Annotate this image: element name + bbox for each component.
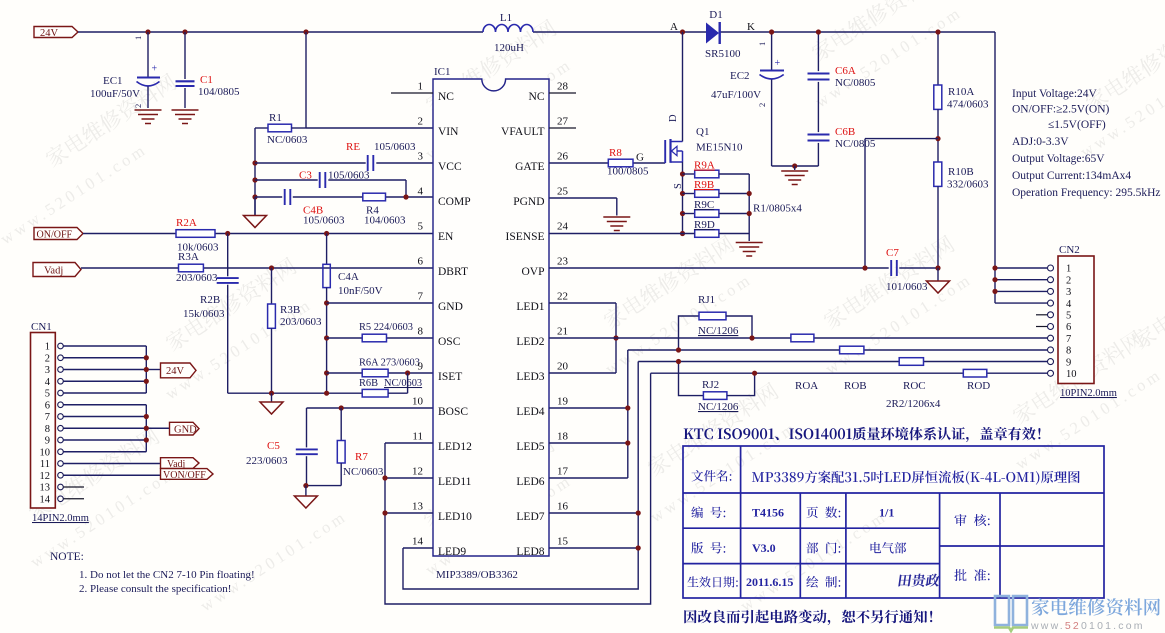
- svg-text:+: +: [152, 64, 158, 75]
- wire BOSC line: [307, 407, 434, 409]
- svg-text:332/0603: 332/0603: [947, 179, 989, 191]
- svg-text:11: 11: [40, 459, 50, 470]
- node junction EN R2B: [225, 231, 230, 236]
- svg-text:10nF/50V: 10nF/50V: [338, 285, 383, 297]
- svg-text:V3.0: V3.0: [752, 541, 776, 555]
- svg-text:5: 5: [45, 389, 50, 400]
- svg-text:16: 16: [557, 501, 569, 513]
- VON/OFF output tag: [161, 469, 214, 480]
- resistor R4: [363, 193, 386, 201]
- wire R9 right vertical: [748, 174, 750, 241]
- svg-text:LED5: LED5: [516, 441, 544, 453]
- node junction source R9C: [680, 211, 685, 216]
- svg-text:RE: RE: [346, 141, 360, 153]
- svg-text:ROA: ROA: [795, 380, 818, 392]
- svg-text:23: 23: [557, 256, 569, 268]
- resistor R8: [608, 159, 633, 167]
- cell label number: [691, 506, 703, 518]
- wire GND line: [327, 302, 433, 304]
- node junction EC2 ground: [792, 163, 797, 168]
- svg-text:24V: 24V: [40, 28, 59, 39]
- node junction rail R3B: [269, 391, 274, 396]
- svg-text:NC/1206: NC/1206: [698, 325, 739, 337]
- svg-text:21: 21: [557, 326, 568, 338]
- svg-text:20: 20: [557, 361, 569, 373]
- ground triangle C5: [305, 486, 307, 496]
- svg-text:14: 14: [412, 536, 424, 548]
- capacitor C5: [306, 408, 308, 447]
- inductor L1: [483, 25, 533, 32]
- node junction OVP link: [862, 265, 867, 270]
- svg-text:SR5100: SR5100: [705, 48, 741, 60]
- svg-text:203/0603: 203/0603: [176, 272, 218, 284]
- wire LED6 line: [549, 477, 628, 479]
- pin 28 stub: [549, 92, 576, 94]
- svg-text:4: 4: [45, 377, 51, 388]
- wire CN1 pin13 stub: [63, 486, 84, 488]
- cell label file name: [692, 470, 704, 482]
- svg-text:R6B: R6B: [359, 378, 378, 389]
- svg-text:4: 4: [1066, 299, 1072, 310]
- node junction C1 on 24V rail: [182, 29, 187, 34]
- svg-text:120uH: 120uH: [494, 42, 524, 54]
- svg-text:105/0603: 105/0603: [374, 141, 416, 153]
- svg-text:ON/OFF: ON/OFF: [37, 229, 73, 240]
- diode D1: [706, 23, 719, 44]
- resistor ROB: [840, 346, 864, 354]
- node junction C7 right: [935, 265, 940, 270]
- svg-text:2: 2: [133, 104, 143, 108]
- svg-text:R2A: R2A: [176, 217, 197, 229]
- svg-text:NC/0603: NC/0603: [267, 134, 308, 146]
- wire CN2 pin1: [995, 267, 1047, 269]
- ground triangle VCC rail: [254, 197, 256, 216]
- svg-text:10: 10: [412, 396, 424, 408]
- svg-text:CN1: CN1: [31, 321, 52, 333]
- node junction source ISENSE: [680, 231, 685, 236]
- svg-text:8: 8: [45, 424, 50, 435]
- wire bus B: [628, 349, 840, 351]
- wire CN1 pins6-10 group: [63, 404, 146, 406]
- svg-text:MIP3389/OB3362: MIP3389/OB3362: [436, 569, 518, 581]
- node junction C3: [252, 177, 257, 182]
- ground C1: [172, 109, 199, 111]
- svg-text:2: 2: [757, 103, 767, 107]
- svg-text:10: 10: [1066, 369, 1077, 380]
- resistor R2A: [176, 230, 215, 238]
- svg-text:LED8: LED8: [516, 546, 544, 558]
- svg-text:R3B: R3B: [280, 304, 300, 316]
- svg-text:DBRT: DBRT: [438, 266, 468, 278]
- cell value drawn name: [898, 574, 940, 587]
- svg-text:www.520101.com: www.520101.com: [1030, 620, 1145, 632]
- svg-text:OSC: OSC: [438, 336, 461, 348]
- node junction LED7 tie: [636, 510, 641, 515]
- svg-text:6: 6: [418, 256, 424, 268]
- wire LED4-6 tie: [627, 350, 629, 478]
- 24V output tag: [161, 363, 197, 378]
- cell label reviewer: [954, 514, 966, 526]
- cell label department: [807, 542, 819, 554]
- node junction COMP R4: [403, 194, 408, 199]
- title header KTC ISO9001: [684, 429, 694, 439]
- svg-text:IC1: IC1: [434, 66, 451, 78]
- svg-text:1: 1: [45, 342, 50, 353]
- node junction BOSC R7: [339, 405, 344, 410]
- ground EC2: [794, 166, 796, 170]
- svg-text:ROC: ROC: [903, 380, 926, 392]
- svg-text:9: 9: [1066, 357, 1071, 368]
- svg-text:C5: C5: [267, 440, 280, 452]
- svg-text:101/0603: 101/0603: [886, 281, 928, 293]
- node junction CN2 pin3: [992, 289, 997, 294]
- svg-text:R5 224/0603: R5 224/0603: [359, 322, 413, 333]
- 24V input tag: [34, 27, 78, 38]
- wire OSC line: [327, 337, 363, 339]
- svg-text:NC/0603: NC/0603: [384, 378, 422, 389]
- svg-text:≤1.5V(OFF): ≤1.5V(OFF): [1048, 119, 1106, 131]
- svg-text:Input Voltage:24V: Input Voltage:24V: [1012, 88, 1098, 100]
- svg-text:R8: R8: [609, 147, 622, 159]
- svg-text:Operation Frequency: 295.5kHz: Operation Frequency: 295.5kHz: [1012, 187, 1161, 199]
- node junction CN1 pin7: [144, 414, 149, 419]
- svg-text:ADJ:0-3.3V: ADJ:0-3.3V: [1012, 136, 1069, 148]
- svg-text:223/0603: 223/0603: [246, 455, 288, 467]
- svg-text:17: 17: [557, 466, 569, 478]
- cell value dept electric: [871, 542, 882, 553]
- node junction LED11 tie: [382, 475, 387, 480]
- svg-text:9: 9: [418, 361, 424, 373]
- svg-text:C6A: C6A: [835, 65, 856, 77]
- svg-text:5: 5: [418, 221, 424, 233]
- svg-text:1/1: 1/1: [879, 506, 894, 520]
- node junction EC1 on 24V rail: [145, 29, 150, 34]
- node junction LED8 tie: [636, 545, 641, 550]
- svg-text:C3: C3: [299, 170, 312, 182]
- resistor ROD: [963, 369, 987, 377]
- svg-text:LED6: LED6: [516, 476, 544, 488]
- wire LED11 line: [385, 477, 433, 479]
- svg-text:ISET: ISET: [438, 371, 462, 383]
- ON/OFF input tag: [34, 228, 83, 240]
- svg-text:VCC: VCC: [438, 161, 462, 173]
- wire LED1-3 tie: [615, 303, 617, 373]
- wire R10 OVP link: [865, 138, 938, 140]
- svg-text:5: 5: [1066, 311, 1071, 322]
- svg-text:R9B: R9B: [694, 179, 714, 191]
- svg-text:NC: NC: [438, 91, 454, 103]
- GND output tag: [170, 422, 200, 435]
- svg-text:8: 8: [1066, 346, 1071, 357]
- svg-text:14: 14: [40, 494, 51, 505]
- svg-text:LED12: LED12: [438, 441, 472, 453]
- svg-text:13: 13: [40, 483, 51, 494]
- svg-text:2: 2: [418, 116, 424, 128]
- svg-text:Q1: Q1: [696, 126, 709, 138]
- svg-text:C6B: C6B: [835, 126, 855, 138]
- svg-text:R10A: R10A: [948, 86, 974, 98]
- svg-text:C7: C7: [886, 247, 899, 259]
- svg-text:24V: 24V: [166, 366, 185, 377]
- svg-text:NC/0805: NC/0805: [835, 77, 876, 89]
- svg-text:1: 1: [1066, 264, 1071, 275]
- node junction CN1 pin2: [144, 355, 149, 360]
- node junction source R9A: [680, 171, 685, 176]
- svg-text:105/0603: 105/0603: [328, 170, 370, 182]
- svg-text:EN: EN: [438, 231, 454, 243]
- capacitor C6A: [817, 32, 819, 71]
- svg-text:+: +: [775, 58, 781, 69]
- op-amp IC1 MIP3389/OB3362 body: [433, 79, 549, 556]
- logo site name: [1032, 598, 1049, 615]
- svg-text:10PIN2.0mm: 10PIN2.0mm: [1060, 388, 1117, 399]
- wire Q1 drain: [682, 32, 684, 142]
- node junction rail C4A: [324, 391, 329, 396]
- svg-text:7: 7: [45, 412, 50, 423]
- svg-text:3: 3: [45, 365, 50, 376]
- svg-text:LED9: LED9: [438, 546, 466, 558]
- svg-text:LED4: LED4: [516, 406, 544, 418]
- svg-text:1: 1: [418, 81, 424, 93]
- wire VCC rail vertical: [254, 128, 256, 215]
- svg-text:RJ1: RJ1: [698, 294, 715, 306]
- svg-text:PGND: PGND: [513, 196, 544, 208]
- node junction RJ1 left: [676, 347, 681, 352]
- svg-text:24: 24: [557, 221, 569, 233]
- pin 1 stub: [391, 92, 433, 94]
- node junction RJ2 left: [676, 359, 681, 364]
- svg-text:6: 6: [1066, 322, 1071, 333]
- capacitor R2B column: [227, 234, 229, 277]
- svg-text:1: 1: [133, 36, 143, 40]
- svg-text:NC/1206: NC/1206: [698, 401, 739, 413]
- cell label drawn by: [806, 576, 818, 588]
- svg-text:100/0805: 100/0805: [607, 166, 649, 178]
- svg-text:COMP: COMP: [438, 196, 471, 208]
- svg-text:2: 2: [1066, 275, 1071, 286]
- svg-text:K: K: [747, 21, 755, 33]
- node junction ISET line: [324, 370, 329, 375]
- resistor R9B: [683, 193, 695, 195]
- capacitor C7: [890, 260, 892, 276]
- node junction LED10 tie: [382, 510, 387, 515]
- wire LED1 line: [549, 302, 616, 304]
- wire LED5 line: [549, 442, 628, 444]
- svg-text:11: 11: [412, 431, 423, 443]
- wire CN2 supply vertical: [994, 32, 996, 303]
- resistor R9A: [683, 173, 695, 175]
- svg-text:NC/0805: NC/0805: [835, 138, 876, 150]
- svg-text:203/0603: 203/0603: [280, 316, 322, 328]
- cell label approver: [954, 569, 966, 581]
- svg-text:BOSC: BOSC: [438, 406, 468, 418]
- svg-text:104/0805: 104/0805: [198, 86, 240, 98]
- node junction R10 mid: [935, 136, 940, 141]
- wire C3 line: [255, 179, 318, 181]
- svg-text:28: 28: [557, 81, 569, 93]
- resistor R6B: [327, 392, 363, 394]
- wire PGND line: [549, 197, 617, 199]
- wire CN2 pin5 stub: [1036, 314, 1047, 316]
- node junction VIN drop on 24V rail: [303, 29, 308, 34]
- logo book icon: [995, 596, 1027, 625]
- node junction OSC line: [324, 335, 329, 340]
- wire LED8 line: [549, 547, 638, 549]
- resistor R9C: [683, 213, 695, 215]
- svg-text:OVP: OVP: [521, 266, 544, 278]
- node junction DBRT R3B: [269, 265, 274, 270]
- svg-text:D: D: [668, 114, 679, 122]
- svg-text:NC: NC: [529, 91, 545, 103]
- wire CN2 pin2: [995, 279, 1047, 281]
- svg-text:7: 7: [418, 291, 424, 303]
- wire GATE line: [549, 162, 608, 164]
- svg-text:474/0603: 474/0603: [947, 99, 989, 111]
- svg-text:ROD: ROD: [967, 380, 990, 392]
- wire LED12 line: [385, 442, 433, 444]
- node junction EN C4A: [324, 231, 329, 236]
- wire EC2 C6 bottom: [772, 165, 819, 167]
- Vadj output tag: [161, 458, 200, 469]
- node junction source R9B: [680, 191, 685, 196]
- node junction LED5 tie: [625, 440, 630, 445]
- wire VIN line: [306, 127, 433, 129]
- bottom notice text: [684, 610, 696, 623]
- svg-text:8: 8: [418, 326, 424, 338]
- node junction VCC: [252, 160, 257, 165]
- wire LED10 line: [385, 512, 433, 514]
- wire LED10-12 loop: [385, 373, 651, 604]
- svg-text:R10B: R10B: [948, 166, 974, 178]
- svg-text:6: 6: [45, 400, 50, 411]
- ground triangle C7: [937, 268, 939, 281]
- ground R9: [736, 242, 763, 244]
- svg-text:LED7: LED7: [516, 511, 544, 523]
- svg-text:R1/0805x4: R1/0805x4: [753, 203, 802, 215]
- wire CN2 pin3: [995, 290, 1047, 292]
- node junction C6A top: [816, 29, 821, 34]
- svg-text:EC2: EC2: [730, 70, 750, 82]
- svg-text:3: 3: [1066, 287, 1071, 298]
- capacitor EC2 electrolytic: [771, 32, 773, 70]
- svg-text:3: 3: [418, 151, 424, 163]
- svg-text:D1: D1: [709, 9, 722, 21]
- wire COMP line: [255, 196, 282, 198]
- resistor R3A: [179, 264, 204, 272]
- svg-text:12: 12: [412, 466, 423, 478]
- svg-text:R7: R7: [355, 451, 368, 463]
- ground PGND: [603, 216, 630, 218]
- svg-text:7: 7: [1066, 334, 1071, 345]
- transistor Q1 MOSFET: [664, 140, 666, 163]
- wire ground rail: [228, 392, 327, 394]
- wire 24V rail: [78, 31, 483, 33]
- wire bus D: [651, 372, 964, 374]
- svg-text:2. Please consult the specifi: 2. Please consult the specification!: [79, 583, 231, 595]
- svg-text:ISENSE: ISENSE: [506, 231, 545, 243]
- svg-text:GATE: GATE: [515, 161, 544, 173]
- node A junction: [680, 29, 685, 34]
- svg-text:R9C: R9C: [694, 199, 714, 211]
- svg-text:ME15N10: ME15N10: [696, 142, 743, 154]
- svg-text:ROB: ROB: [844, 380, 867, 392]
- node junction R9B right: [747, 191, 752, 196]
- wire VCC line: [255, 162, 366, 164]
- Vadj input tag: [33, 263, 81, 277]
- wire LED7 line: [549, 512, 638, 514]
- wire CN1 pins1-5 group: [63, 345, 146, 347]
- wire bus A LED2: [549, 337, 791, 339]
- svg-text:2011.6.15: 2011.6.15: [746, 575, 793, 589]
- svg-text:ON/OFF:≥2.5V(ON): ON/OFF:≥2.5V(ON): [1012, 104, 1110, 116]
- wire CN2 pin6 stub: [1036, 326, 1047, 328]
- svg-text:VIN: VIN: [438, 126, 459, 138]
- svg-text:15k/0603: 15k/0603: [183, 308, 225, 320]
- capacitor EC1 electrolytic: [147, 32, 149, 77]
- svg-text:R2B: R2B: [200, 294, 220, 306]
- connector CN2: [1058, 256, 1094, 384]
- resistor R7: [340, 408, 342, 441]
- wire LED3 line: [549, 372, 616, 374]
- resistor R3B: [271, 268, 273, 304]
- node junction CN1 pin4: [144, 379, 149, 384]
- resistor R9D on ISENSE line: [695, 230, 719, 238]
- wire VIN drop: [305, 32, 307, 128]
- svg-text:NC/0603: NC/0603: [343, 466, 384, 478]
- svg-text:GND: GND: [438, 301, 463, 313]
- wire DBRT line: [81, 267, 179, 269]
- node junction CN2 pin1: [992, 265, 997, 270]
- wire LED9 loop: [403, 362, 638, 590]
- wire ISET line: [327, 372, 363, 374]
- svg-text:LED2: LED2: [516, 336, 544, 348]
- svg-text:10: 10: [40, 447, 51, 458]
- svg-text:Output Current:134mAx4: Output Current:134mAx4: [1012, 170, 1131, 182]
- svg-text:105/0603: 105/0603: [303, 215, 345, 227]
- svg-text:LED11: LED11: [438, 476, 472, 488]
- svg-text:GND: GND: [174, 424, 197, 435]
- node junction CN1 pin9: [144, 437, 149, 442]
- svg-text:25: 25: [557, 186, 569, 198]
- wire LED9 pin: [403, 547, 433, 549]
- wire bus C: [638, 361, 899, 363]
- svg-text:2: 2: [45, 353, 50, 364]
- svg-text:VON/OFF: VON/OFF: [163, 470, 206, 481]
- svg-text:EC1: EC1: [103, 75, 123, 87]
- resistor R5: [362, 334, 386, 342]
- svg-text:L1: L1: [500, 12, 512, 24]
- svg-text:1: 1: [757, 42, 767, 46]
- wire Q1 source: [682, 162, 684, 234]
- node junction LED2 tie: [613, 335, 618, 340]
- capacitor RE: [367, 155, 369, 171]
- svg-text:G: G: [636, 152, 644, 164]
- cell title text: [752, 472, 764, 482]
- svg-text:18: 18: [557, 431, 569, 443]
- node junction CN1 pin3: [144, 367, 149, 372]
- resistor R6A: [362, 369, 388, 377]
- node junction COMP: [252, 194, 257, 199]
- svg-text:NOTE:: NOTE:: [50, 551, 84, 563]
- wire CN1 pin12: [63, 474, 160, 476]
- node junction EC2 top: [769, 29, 774, 34]
- capacitor C6B: [808, 134, 830, 136]
- node junction ISET R6: [405, 370, 410, 375]
- resistor R1: [255, 127, 268, 129]
- ground triangle rail: [271, 393, 273, 402]
- pin 27 stub: [549, 127, 576, 129]
- svg-text:RJ2: RJ2: [702, 379, 719, 391]
